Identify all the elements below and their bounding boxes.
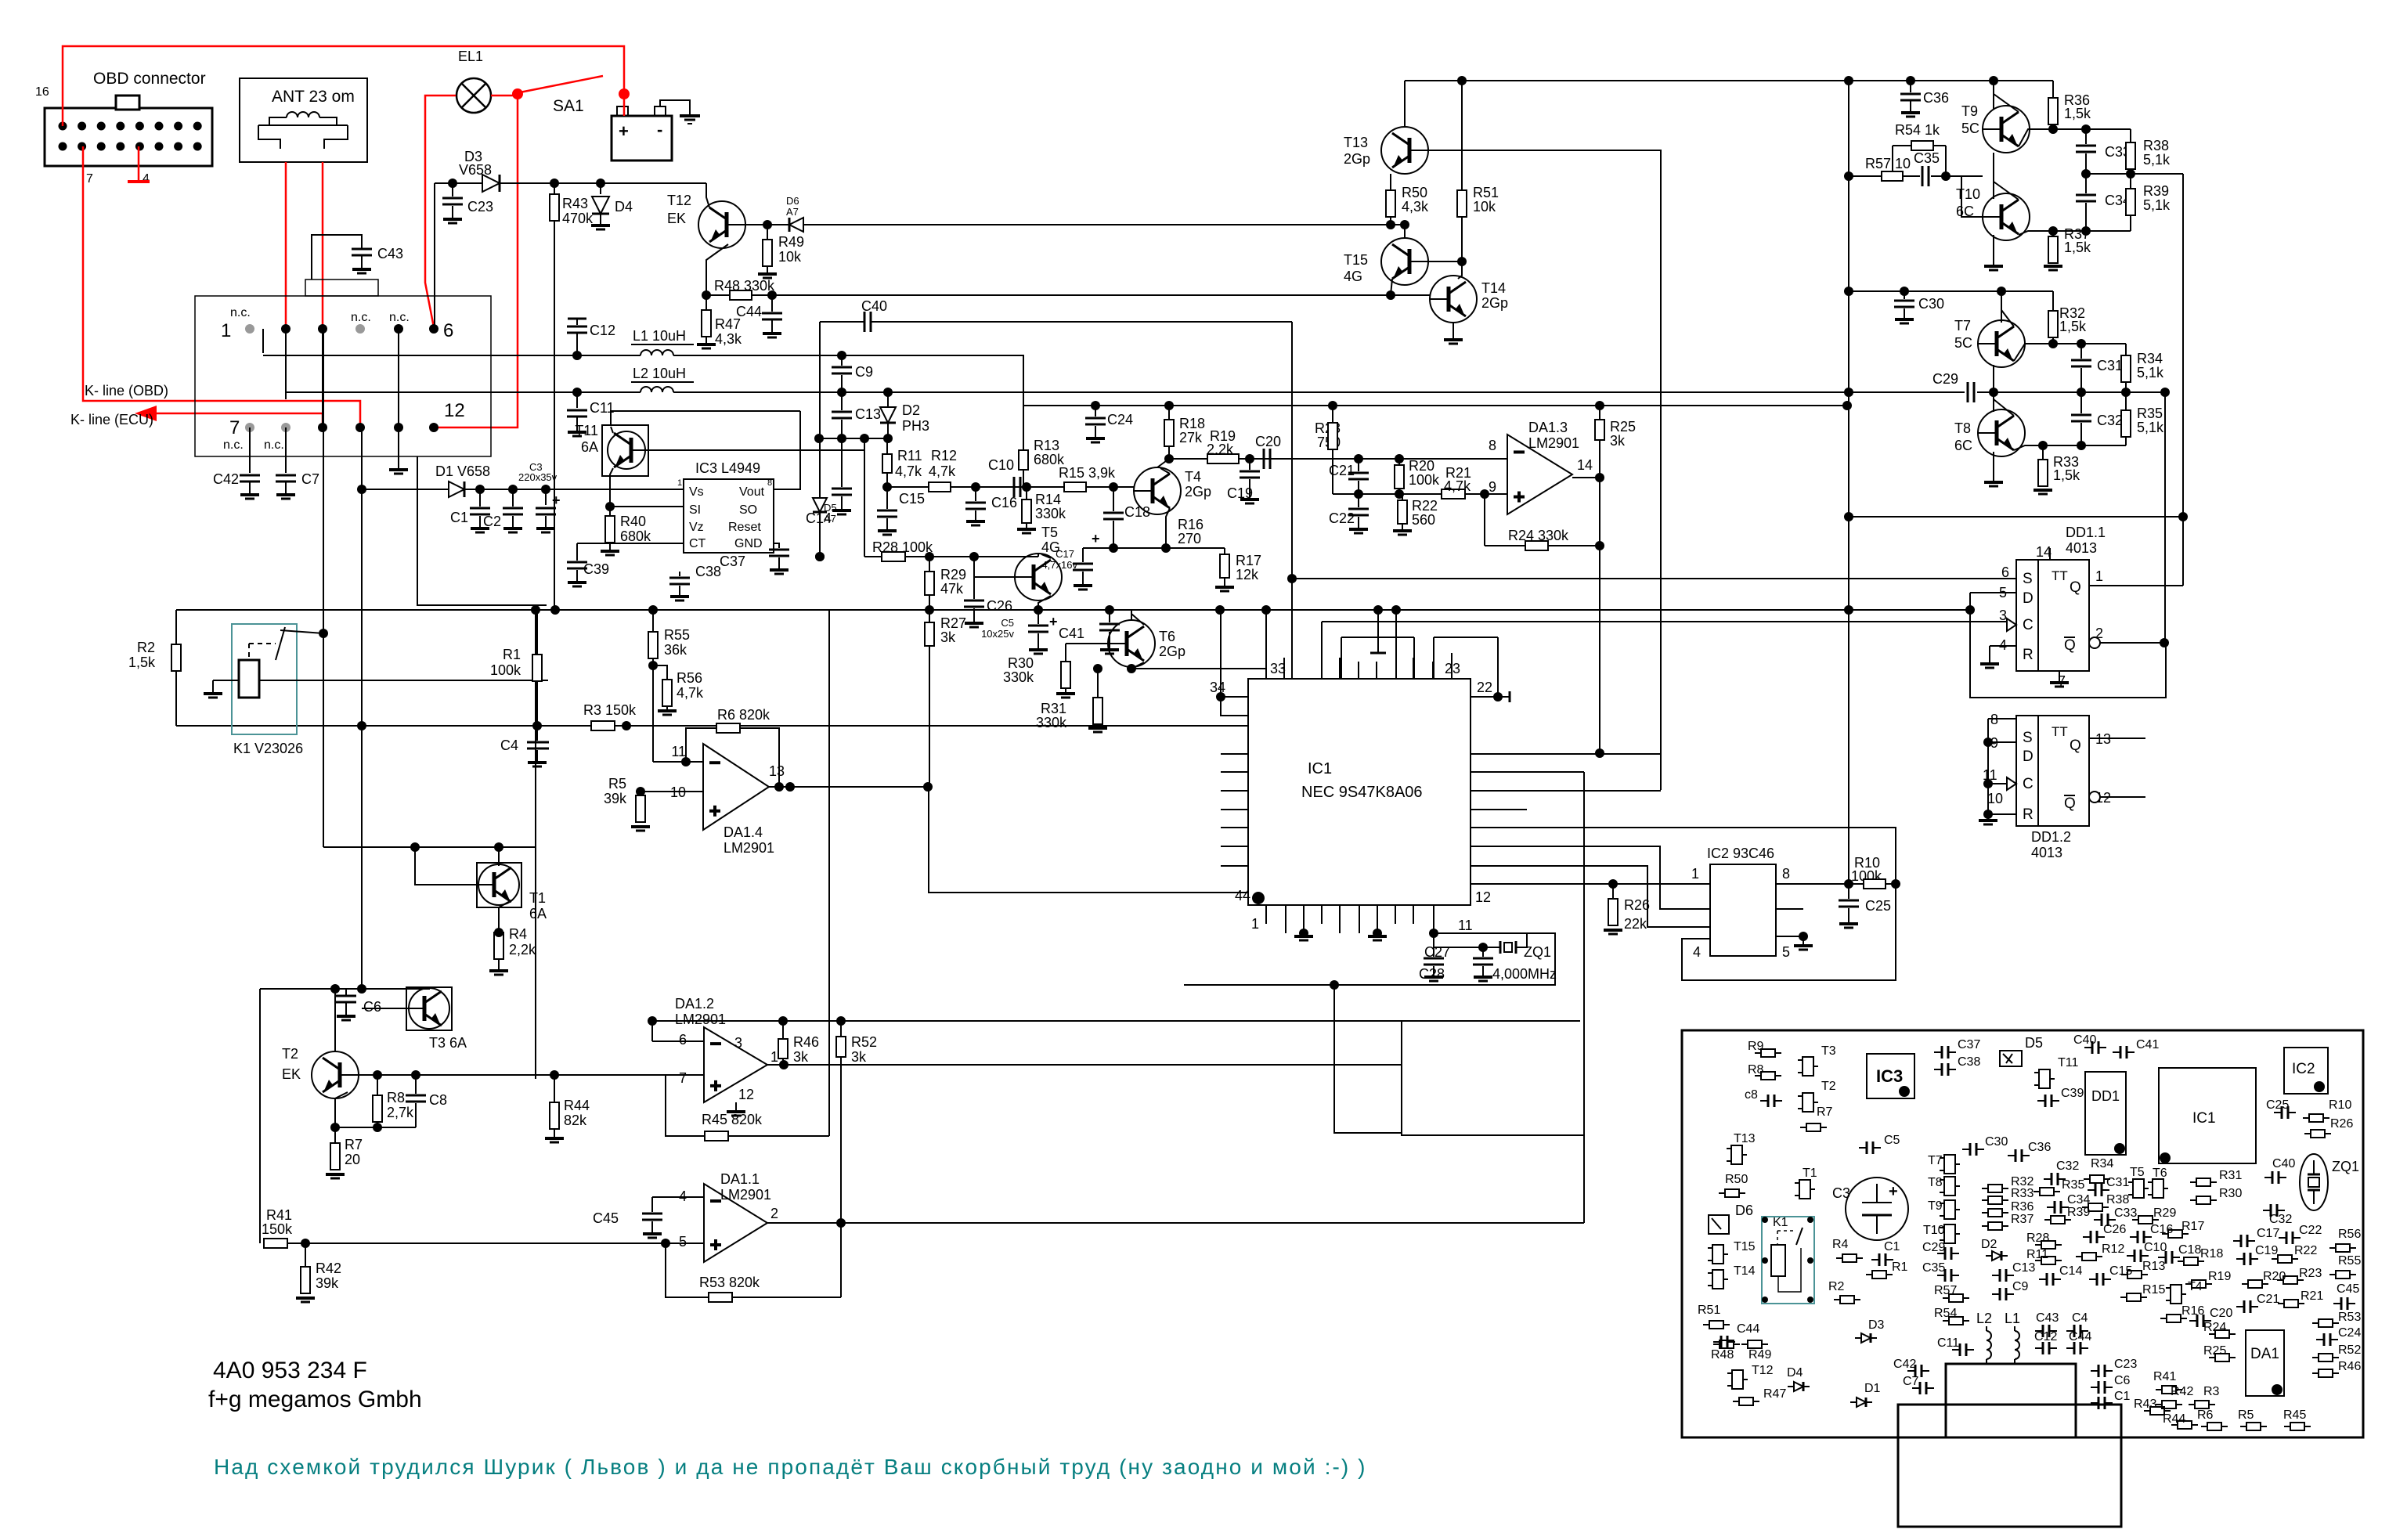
svg-text:C42: C42 [1893,1358,1916,1371]
svg-text:NEC 9S47K8A06: NEC 9S47K8A06 [1301,784,1423,801]
svg-text:8: 8 [1489,438,1496,453]
svg-text:C18: C18 [1124,504,1150,520]
svg-text:S: S [2023,571,2033,587]
svg-text:DA1.3: DA1.3 [1528,420,1568,435]
svg-text:OBD connector: OBD connector [93,70,206,88]
svg-text:22: 22 [1477,680,1492,695]
svg-text:C10: C10 [988,457,1014,473]
svg-text:8: 8 [1782,866,1790,882]
svg-text:CT: CT [689,537,706,550]
svg-text:T2: T2 [1821,1080,1836,1093]
svg-text:T1: T1 [529,890,546,906]
svg-text:R10: R10 [2329,1098,2351,1112]
svg-text:R12: R12 [2102,1242,2124,1256]
svg-text:R55: R55 [2338,1254,2361,1268]
svg-text:5,1k: 5,1k [2143,197,2171,213]
svg-text:16: 16 [35,85,49,99]
svg-text:D1: D1 [1864,1382,1881,1395]
svg-text:4G: 4G [1041,539,1060,555]
svg-text:27k: 27k [1179,430,1203,445]
svg-text:R7: R7 [1817,1105,1833,1119]
svg-text:R4: R4 [1832,1238,1849,1251]
svg-text:S: S [2023,730,2033,746]
svg-text:9: 9 [1489,479,1496,495]
svg-text:4A0 953 234 F: 4A0 953 234 F [213,1358,367,1383]
svg-text:R4: R4 [509,926,527,942]
svg-text:C5: C5 [1001,617,1014,629]
svg-text:R46: R46 [2338,1360,2361,1373]
svg-text:R22: R22 [2294,1244,2317,1257]
svg-text:+: + [619,121,629,141]
svg-text:R5: R5 [608,776,626,792]
svg-text:3k: 3k [793,1049,809,1065]
svg-text:LM2901: LM2901 [720,1187,771,1203]
svg-text:7: 7 [229,417,240,438]
svg-text:+: + [1092,531,1100,546]
svg-text:T5: T5 [2130,1166,2145,1179]
svg-text:220x35v: 220x35v [518,471,558,483]
svg-text:T4: T4 [2188,1280,2203,1293]
svg-text:R30: R30 [2219,1187,2242,1200]
svg-text:K- line (OBD): K- line (OBD) [85,383,168,399]
svg-text:R41: R41 [2153,1370,2176,1383]
svg-text:L1 10uH: L1 10uH [633,328,686,344]
svg-text:3k: 3k [1610,433,1626,449]
svg-text:R5: R5 [2238,1408,2254,1422]
svg-text:C22: C22 [2299,1224,2322,1237]
svg-text:R34: R34 [2091,1157,2113,1170]
svg-text:R53: R53 [2338,1311,2361,1324]
svg-text:V658: V658 [459,162,492,178]
svg-text:T5: T5 [1041,525,1058,540]
svg-text:C13: C13 [855,406,881,422]
svg-text:EK: EK [667,211,686,226]
svg-text:R44: R44 [564,1098,590,1113]
svg-text:330k: 330k [1003,669,1034,685]
svg-text:R20: R20 [2263,1270,2286,1283]
svg-text:C33: C33 [2114,1206,2137,1220]
svg-text:R38: R38 [2106,1193,2129,1206]
svg-text:Над схемкой трудился Шурик ( Л: Над схемкой трудился Шурик ( Львов ) и д… [214,1455,1367,1479]
svg-text:R15 3,9k: R15 3,9k [1059,465,1116,481]
svg-text:6C: 6C [1954,438,1972,453]
svg-text:Vout: Vout [739,485,765,499]
svg-text:4,000MHz: 4,000MHz [1492,966,1557,982]
svg-text:10k: 10k [778,249,802,265]
svg-text:C7: C7 [1903,1375,1919,1388]
svg-text:4: 4 [143,172,150,186]
svg-text:PH3: PH3 [902,418,929,434]
svg-text:R35: R35 [2062,1178,2084,1192]
svg-text:ZQ1: ZQ1 [2332,1159,2359,1174]
svg-text:C27: C27 [1424,944,1450,960]
svg-text:6A: 6A [529,906,547,921]
svg-text:Vz: Vz [689,521,704,534]
svg-text:C36: C36 [2028,1141,2051,1154]
svg-text:TT: TT [2052,568,2068,583]
svg-text:C43: C43 [377,246,403,261]
svg-text:R49: R49 [778,234,804,250]
svg-text:R54 1k: R54 1k [1895,122,1940,138]
svg-text:C10: C10 [2144,1241,2167,1254]
svg-text:T6: T6 [1159,629,1175,644]
svg-text:1: 1 [221,320,231,341]
svg-text:R42: R42 [316,1260,341,1276]
svg-text:T2: T2 [282,1046,298,1062]
svg-text:270: 270 [1178,531,1201,546]
svg-text:R42: R42 [2171,1385,2193,1398]
svg-text:R8: R8 [1748,1063,1764,1077]
svg-text:R30: R30 [1008,655,1034,671]
svg-text:LM2901: LM2901 [1528,435,1579,451]
svg-text:D5: D5 [2025,1035,2043,1051]
svg-text:12: 12 [738,1087,754,1102]
svg-text:R6 820k: R6 820k [717,707,770,723]
svg-text:T7: T7 [1928,1154,1943,1167]
svg-text:R31: R31 [1041,701,1066,716]
svg-text:R21: R21 [2301,1289,2323,1303]
svg-text:C22: C22 [1329,510,1355,526]
svg-text:C21: C21 [2257,1293,2279,1306]
svg-text:C41: C41 [1059,626,1084,641]
svg-text:C19: C19 [2255,1244,2278,1257]
svg-text:C32: C32 [2269,1213,2292,1226]
svg-text:R17: R17 [2181,1220,2204,1233]
svg-text:1: 1 [770,1049,778,1065]
svg-text:R37: R37 [2011,1213,2034,1226]
svg-text:D2: D2 [1981,1238,1997,1251]
svg-text:C29: C29 [1932,371,1958,387]
svg-text:1,5k: 1,5k [128,655,156,670]
svg-text:R1: R1 [1892,1260,1908,1274]
svg-text:C37: C37 [720,554,745,569]
svg-text:5,1k: 5,1k [2143,152,2171,168]
svg-text:SO: SO [739,503,757,517]
svg-text:T7: T7 [1954,318,1971,334]
svg-text:TT: TT [2052,724,2068,739]
svg-text:C42: C42 [213,471,239,487]
svg-text:C44: C44 [736,304,762,319]
svg-text:+: + [552,492,561,508]
svg-text:2,2k: 2,2k [509,942,536,958]
svg-text:IC2 93C46: IC2 93C46 [1707,846,1774,861]
svg-text:R41: R41 [266,1207,292,1223]
svg-text:11: 11 [1458,918,1473,933]
svg-text:L2: L2 [1976,1311,1992,1326]
svg-text:8: 8 [767,478,772,488]
svg-text:n.c.: n.c. [223,438,244,452]
svg-text:C24: C24 [1107,412,1133,427]
svg-text:1: 1 [2095,568,2103,584]
svg-text:R50: R50 [1402,185,1427,200]
svg-text:2Gp: 2Gp [1344,151,1370,167]
svg-text:C45: C45 [593,1210,619,1226]
svg-text:R25: R25 [1610,419,1636,435]
svg-text:R11: R11 [897,448,922,463]
svg-text:C31: C31 [2097,358,2123,373]
svg-text:T14: T14 [1734,1264,1756,1278]
svg-text:IC2: IC2 [2292,1061,2315,1077]
svg-text:C26: C26 [2103,1223,2126,1236]
svg-text:K- line (ECU): K- line (ECU) [70,412,153,427]
svg-text:22k: 22k [1624,916,1647,932]
svg-text:R16: R16 [2181,1304,2204,1318]
svg-text:R22: R22 [1412,498,1438,514]
svg-text:C15: C15 [2109,1264,2132,1278]
svg-text:R38: R38 [2143,138,2169,153]
svg-text:R: R [2023,647,2034,663]
svg-text:R50: R50 [1725,1173,1748,1186]
svg-text:R29: R29 [940,567,966,582]
svg-text:Q: Q [2070,738,2081,754]
svg-text:4,7k: 4,7k [895,463,922,479]
svg-text:R3 150k: R3 150k [583,702,637,718]
svg-text:R: R [2023,806,2034,823]
svg-text:R56: R56 [2338,1228,2361,1241]
svg-text:R2: R2 [1828,1280,1845,1293]
svg-text:C40: C40 [2073,1033,2096,1047]
svg-text:R8: R8 [387,1090,405,1105]
svg-text:T8: T8 [1954,420,1971,436]
svg-text:T4: T4 [1185,469,1201,485]
svg-text:3k: 3k [851,1049,867,1065]
svg-text:R13: R13 [1034,438,1059,453]
svg-text:3k: 3k [940,629,956,645]
svg-text:EK: EK [282,1066,301,1082]
svg-text:C9: C9 [2012,1280,2029,1293]
svg-text:+: + [1049,614,1058,629]
svg-text:R43: R43 [562,196,588,211]
svg-text:T12: T12 [667,193,691,208]
svg-text:C9: C9 [855,364,873,380]
svg-text:GND: GND [734,537,763,550]
svg-text:R9: R9 [1748,1040,1764,1053]
svg-text:T10: T10 [1923,1224,1945,1237]
svg-text:DD1.1: DD1.1 [2066,525,2106,540]
svg-text:DD1.2: DD1.2 [2031,829,2071,845]
svg-text:7: 7 [679,1070,687,1086]
svg-text:C8: C8 [429,1092,447,1108]
svg-text:C32: C32 [2097,413,2123,428]
svg-text:T12: T12 [1752,1364,1774,1377]
svg-text:C1: C1 [450,510,468,525]
svg-text:R1: R1 [503,647,521,662]
svg-text:R26: R26 [1624,897,1650,913]
svg-text:D3: D3 [1868,1318,1885,1332]
svg-text:+: + [1889,1183,1898,1200]
svg-text:R25: R25 [2203,1344,2226,1358]
svg-text:330k: 330k [1035,506,1066,521]
svg-text:T1: T1 [1803,1167,1817,1180]
svg-text:R53 820k: R53 820k [699,1275,760,1290]
svg-text:5C: 5C [1961,121,1979,136]
svg-text:C29: C29 [1922,1241,1945,1254]
svg-text:R28: R28 [2026,1232,2049,1245]
svg-text:R18: R18 [2200,1247,2223,1260]
svg-text:-: - [657,120,662,139]
svg-text:C31: C31 [2106,1176,2129,1189]
svg-text:T3 6A: T3 6A [429,1035,467,1051]
svg-text:Q: Q [2064,637,2076,654]
svg-text:T13: T13 [1344,135,1368,150]
svg-text:R17: R17 [1236,553,1261,568]
svg-text:C43: C43 [2036,1311,2059,1325]
svg-text:R16: R16 [1178,517,1203,532]
svg-text:6: 6 [679,1032,687,1048]
svg-text:T9: T9 [1961,103,1978,119]
svg-text:L1: L1 [2005,1311,2020,1326]
svg-text:n.c.: n.c. [389,311,410,324]
svg-text:R44: R44 [2163,1412,2185,1426]
svg-text:1: 1 [677,478,682,488]
svg-text:4,3k: 4,3k [715,331,742,347]
svg-text:DA1.1: DA1.1 [720,1171,760,1187]
svg-text:4,7k: 4,7k [1444,478,1471,494]
svg-text:1: 1 [1251,916,1259,932]
svg-text:12: 12 [1475,889,1491,905]
svg-text:T3: T3 [1821,1044,1836,1058]
svg-text:C38: C38 [695,564,721,579]
svg-text:2: 2 [770,1206,778,1221]
svg-text:D2: D2 [902,402,920,418]
svg-text:C26: C26 [987,598,1012,614]
svg-text:Q: Q [2070,579,2081,596]
svg-text:C25: C25 [1865,898,1891,914]
svg-text:R26: R26 [2330,1117,2353,1131]
svg-text:82k: 82k [564,1113,587,1128]
svg-text:13: 13 [769,763,785,779]
svg-text:D4: D4 [615,199,633,215]
svg-text:4: 4 [1693,944,1701,960]
svg-text:R51: R51 [1698,1304,1720,1317]
svg-text:R57: R57 [1934,1284,1957,1297]
svg-text:SA1: SA1 [553,97,584,115]
svg-text:IC1: IC1 [1308,760,1332,777]
svg-text:14: 14 [1577,457,1593,473]
svg-text:R15: R15 [2142,1283,2165,1297]
svg-text:C15: C15 [899,491,925,507]
svg-text:12: 12 [444,400,465,421]
svg-text:4G: 4G [1344,269,1362,284]
svg-text:3: 3 [734,1035,742,1051]
svg-text:K1: K1 [1773,1216,1788,1229]
svg-text:T10: T10 [1956,186,1980,202]
svg-text:C3: C3 [1832,1185,1850,1201]
svg-text:4,3k: 4,3k [1402,199,1429,215]
svg-text:C: C [2023,617,2034,633]
svg-text:R54: R54 [1934,1307,1957,1320]
svg-text:39k: 39k [316,1275,339,1291]
svg-text:D6: D6 [1735,1203,1753,1218]
svg-text:1: 1 [1691,866,1699,882]
svg-text:10: 10 [1987,791,2003,806]
svg-text:5C: 5C [1954,335,1972,351]
svg-text:R52: R52 [2338,1343,2361,1357]
svg-text:36k: 36k [664,642,687,658]
svg-text:C17: C17 [2257,1227,2279,1240]
svg-text:23: 23 [1445,661,1460,676]
svg-text:C37: C37 [1958,1038,1980,1051]
svg-text:C25: C25 [2266,1098,2289,1112]
svg-text:C35: C35 [1922,1261,1945,1275]
svg-text:R52: R52 [851,1034,877,1050]
svg-text:R47: R47 [1763,1387,1786,1401]
svg-text:C23: C23 [2114,1358,2137,1371]
svg-text:DA1.2: DA1.2 [675,996,714,1012]
svg-text:n.c.: n.c. [230,306,251,319]
svg-text:C: C [2023,776,2034,792]
svg-text:C28: C28 [1419,966,1445,982]
svg-text:R31: R31 [2219,1169,2242,1182]
svg-text:n.c.: n.c. [264,438,284,452]
svg-text:T8: T8 [1928,1176,1943,1189]
svg-text:R14: R14 [1035,492,1061,507]
svg-text:D: D [2023,748,2034,765]
svg-text:100k: 100k [1409,472,1440,488]
svg-text:C38: C38 [1958,1055,1980,1069]
svg-text:R45 820k: R45 820k [702,1112,763,1127]
svg-text:R2: R2 [137,640,155,655]
svg-text:R35: R35 [2137,406,2163,421]
svg-text:20: 20 [345,1152,360,1167]
svg-text:R34: R34 [2137,351,2163,366]
svg-text:Q: Q [2064,795,2076,812]
svg-text:T9: T9 [1928,1199,1943,1213]
svg-text:4,7k: 4,7k [929,463,956,479]
svg-text:5,1k: 5,1k [2137,365,2164,380]
svg-text:T11: T11 [575,423,598,438]
svg-text:4,7k: 4,7k [677,685,704,701]
svg-text:5: 5 [1782,944,1790,960]
svg-text:C4: C4 [500,738,518,753]
svg-text:C14: C14 [806,510,832,526]
svg-text:11: 11 [671,744,686,759]
svg-text:6A: 6A [581,439,598,455]
svg-text:T13: T13 [1734,1132,1756,1145]
svg-text:R12: R12 [931,448,957,463]
svg-text:C32: C32 [2056,1160,2079,1173]
svg-text:R46: R46 [793,1034,819,1050]
svg-text:2Gp: 2Gp [1159,644,1185,659]
svg-text:R6: R6 [2197,1408,2214,1422]
svg-text:44: 44 [1235,888,1250,903]
svg-text:1,5k: 1,5k [2064,106,2091,121]
svg-text:R48: R48 [1711,1348,1734,1361]
svg-text:39k: 39k [604,791,627,806]
svg-text:C39: C39 [2061,1087,2084,1100]
svg-text:IC3 L4949: IC3 L4949 [695,460,760,476]
svg-text:LM2901: LM2901 [675,1012,726,1027]
svg-text:T15: T15 [1734,1240,1756,1253]
svg-text:n.c.: n.c. [351,311,371,324]
svg-text:C12: C12 [590,323,615,338]
svg-text:D6: D6 [786,195,799,207]
svg-text:C24: C24 [2338,1326,2361,1340]
svg-text:C6: C6 [2114,1374,2131,1387]
svg-text:R39: R39 [2067,1206,2090,1219]
svg-text:470k: 470k [562,211,594,226]
svg-text:10k: 10k [1473,199,1496,215]
svg-text:DA1: DA1 [2250,1346,2279,1362]
svg-text:R43: R43 [2134,1398,2156,1411]
svg-text:C5: C5 [1884,1134,1900,1147]
svg-text:DD1: DD1 [2091,1088,2120,1104]
svg-text:R55: R55 [664,627,690,643]
svg-text:4013: 4013 [2066,540,2097,556]
svg-text:R57 10: R57 10 [1865,156,1911,171]
svg-text:T11: T11 [2058,1056,2078,1069]
svg-text:Vs: Vs [689,485,704,499]
